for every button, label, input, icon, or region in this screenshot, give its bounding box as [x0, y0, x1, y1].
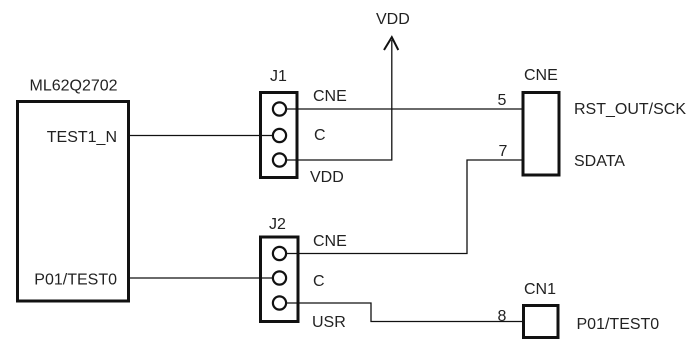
J1 pin 1 circle [273, 102, 286, 115]
VDD arrowhead [384, 37, 398, 50]
svg-text:CN1: CN1 [524, 281, 556, 298]
svg-text:SDATA: SDATA [574, 153, 625, 170]
connector J1 box [261, 93, 298, 178]
svg-text:ML62Q2702: ML62Q2702 [30, 78, 118, 95]
J1 pin 2 circle [273, 129, 286, 142]
svg-text:C: C [313, 273, 325, 290]
svg-text:CNE: CNE [524, 67, 558, 84]
svg-text:P01/TEST0: P01/TEST0 [577, 316, 660, 333]
svg-text:7: 7 [499, 143, 508, 160]
wire J2 pin3 to CN1 pin8 [287, 303, 523, 322]
wire P01/TEST0 to J2 pin2 [130, 277, 273, 279]
J2 pin 3 circle [273, 296, 286, 309]
svg-text:TEST1_N: TEST1_N [47, 129, 117, 146]
wire TEST1_N to J1 pin2 [130, 135, 273, 137]
J2 pin 2 circle [273, 271, 286, 284]
wire CNE pin7 to J2 pin1 [287, 160, 522, 254]
svg-text:USR: USR [312, 314, 346, 331]
connector CN1 box [524, 306, 559, 338]
svg-text:J2: J2 [269, 216, 286, 233]
J1 pin 3 circle [273, 153, 286, 166]
svg-text:VDD: VDD [310, 169, 344, 186]
connector CNE box [523, 93, 559, 176]
connector J2 box [261, 237, 299, 322]
svg-text:CNE: CNE [313, 88, 347, 105]
svg-text:C: C [314, 127, 326, 144]
wire J1 pin3 to VDD rail [287, 40, 392, 160]
svg-text:5: 5 [498, 92, 507, 109]
svg-text:RST_OUT/SCK: RST_OUT/SCK [574, 101, 686, 118]
svg-text:CNE: CNE [313, 233, 347, 250]
J2 pin 1 circle [273, 247, 286, 260]
wire J1 pin1 to CNE pin5 [287, 108, 522, 110]
IC U1 ML62Q2702 box [18, 102, 129, 302]
svg-text:P01/TEST0: P01/TEST0 [34, 272, 117, 289]
svg-text:VDD: VDD [376, 11, 410, 28]
svg-text:8: 8 [498, 308, 507, 325]
svg-text:J1: J1 [270, 68, 287, 85]
